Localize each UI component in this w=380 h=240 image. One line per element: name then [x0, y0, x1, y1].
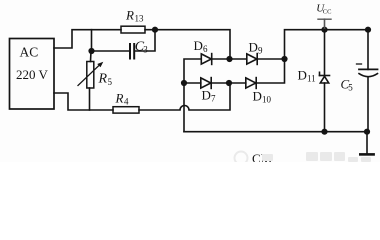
wire C5 bottom lead: [367, 77, 369, 132]
AC source box: [10, 39, 55, 110]
wire D11 top lead: [324, 30, 326, 76]
resistor R4: [113, 107, 139, 113]
svg-text:AC: AC: [20, 45, 39, 60]
svg-text:9: 9: [258, 46, 263, 56]
svg-text:D: D: [249, 40, 258, 55]
svg-text:220 V: 220 V: [16, 67, 49, 82]
ground: [360, 153, 373, 156]
bottom rail: [184, 131, 367, 133]
node bottom D11: [321, 129, 327, 135]
svg-text:5: 5: [348, 83, 353, 93]
bridge left rail: [184, 59, 201, 132]
svg-text:6: 6: [203, 44, 208, 54]
wire R4 right with hop over left rail: [139, 83, 230, 110]
wire C3 right up to junction: [136, 30, 156, 51]
wire C3 left: [92, 50, 129, 52]
svg-text:R: R: [98, 72, 108, 87]
node right rail D9: [281, 56, 287, 62]
node R5/C3 top: [88, 48, 94, 54]
svg-text:R: R: [125, 8, 134, 23]
diode D7: [201, 78, 211, 88]
Ucc terminal: [324, 19, 326, 30]
wire D11 bottom lead: [324, 83, 326, 132]
wire D9 cathode to right rail: [257, 58, 284, 60]
zener diode D11: [320, 75, 330, 77]
svg-text:13: 13: [135, 14, 145, 24]
rheostat R5: [87, 62, 94, 89]
node Ucc tap: [321, 27, 327, 33]
svg-text:4: 4: [124, 97, 129, 107]
svg-text:3: 3: [143, 44, 148, 54]
node junction R13 right: [152, 27, 158, 33]
node bottom C5/ground: [364, 129, 370, 135]
wire D6 cathode to node: [212, 58, 230, 60]
svg-text:D: D: [194, 38, 203, 53]
svg-text:7: 7: [211, 94, 216, 104]
svg-text:D: D: [253, 89, 262, 104]
node C5 top: [365, 27, 371, 33]
diode D9: [247, 54, 257, 64]
wire branch to R5/C3 node: [91, 30, 93, 51]
diode D6: [201, 54, 211, 64]
wire D10 cathode to right rail corner: [256, 59, 284, 83]
node D7/D10: [226, 80, 232, 86]
wire AC bottom jog: [54, 93, 113, 110]
svg-text:D: D: [298, 68, 307, 83]
svg-text:5: 5: [108, 77, 113, 87]
svg-text:CC: CC: [323, 8, 332, 15]
wire ground lead: [366, 132, 368, 153]
wire D7 row left: [184, 82, 201, 84]
svg-text:11: 11: [307, 74, 316, 84]
svg-text:R: R: [115, 91, 124, 106]
capacitor C5 polarity mark: [357, 63, 362, 65]
wire top rail R13 right segment: [145, 30, 230, 59]
watermark: [235, 151, 372, 166]
wire node to D9: [230, 58, 247, 60]
wire AC top to rail: [54, 30, 121, 48]
rheostat R5 arrow: [78, 64, 101, 86]
capacitor C3: [130, 44, 134, 59]
wire right rail up and Ucc rail: [285, 30, 369, 59]
svg-text:10: 10: [262, 95, 272, 105]
capacitor C5: [359, 68, 378, 70]
wire node to D10: [229, 82, 246, 84]
node D6/D9: [226, 56, 232, 62]
resistor R13: [121, 26, 145, 33]
wire C5 top lead: [367, 30, 369, 70]
wire D7 cathode to node: [211, 82, 229, 84]
node left rail D7: [181, 80, 187, 86]
svg-text:D: D: [202, 88, 211, 103]
wire R5 bottom lead: [89, 88, 91, 110]
diode D10: [246, 78, 256, 88]
